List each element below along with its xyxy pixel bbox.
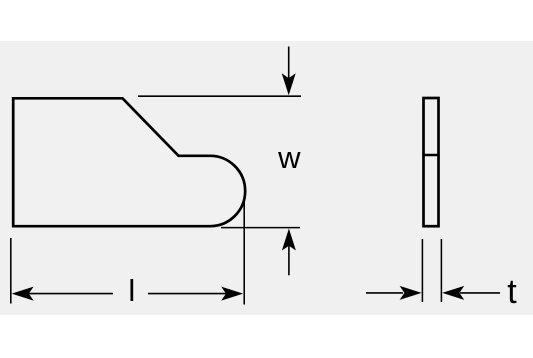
extension line t left (421, 239, 423, 302)
dimension arrow w top (down) (282, 47, 296, 96)
dimension arrow w bottom (up) (282, 229, 296, 276)
svg-text:l: l (128, 273, 135, 308)
svg-text:t: t (507, 273, 517, 311)
side view body (424, 98, 439, 226)
dimension arrow t left (pointing right) (366, 286, 422, 300)
extension line w bottom (221, 227, 300, 229)
gray figure panel (0, 41, 533, 315)
dimension line l with outward arrows (12, 287, 244, 301)
svg-text:w: w (277, 140, 301, 175)
extension line w top (138, 95, 301, 97)
dimension arrow t right (pointing left) (442, 286, 500, 300)
extension line t right (440, 239, 442, 302)
side view bevel divider line (422, 154, 439, 157)
part outline (front view) (13, 98, 245, 226)
extension line l right (243, 202, 245, 305)
extension line l left (10, 238, 12, 304)
